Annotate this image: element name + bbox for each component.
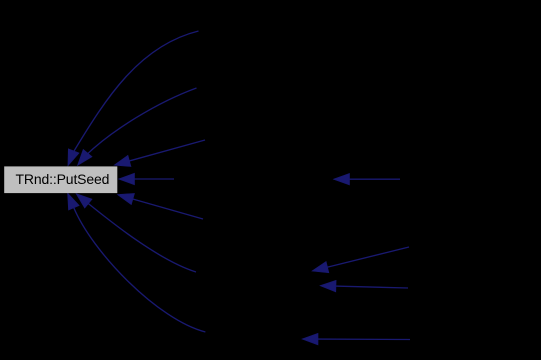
- edge caller11 -> caller7: [302, 333, 410, 345]
- edge caller9 -> caller6: [312, 247, 409, 273]
- edge caller3 -> TRnd::PutSeed: [114, 140, 205, 167]
- edge caller4 -> TRnd::PutSeed: [119, 173, 175, 185]
- edge caller8 -> caller4: [334, 173, 401, 185]
- node TRnd::PutSeed: [4, 166, 117, 193]
- edge caller6 -> TRnd::PutSeed: [76, 194, 196, 273]
- edge caller10 -> caller6: [320, 280, 408, 292]
- svg-text:TRnd::PutSeed: TRnd::PutSeed: [16, 171, 110, 187]
- edge caller5 -> TRnd::PutSeed: [118, 193, 204, 219]
- edge caller7 -> TRnd::PutSeed: [68, 193, 206, 332]
- edge caller1 -> TRnd::PutSeed: [68, 31, 199, 166]
- edge caller2 -> TRnd::PutSeed: [78, 88, 197, 165]
